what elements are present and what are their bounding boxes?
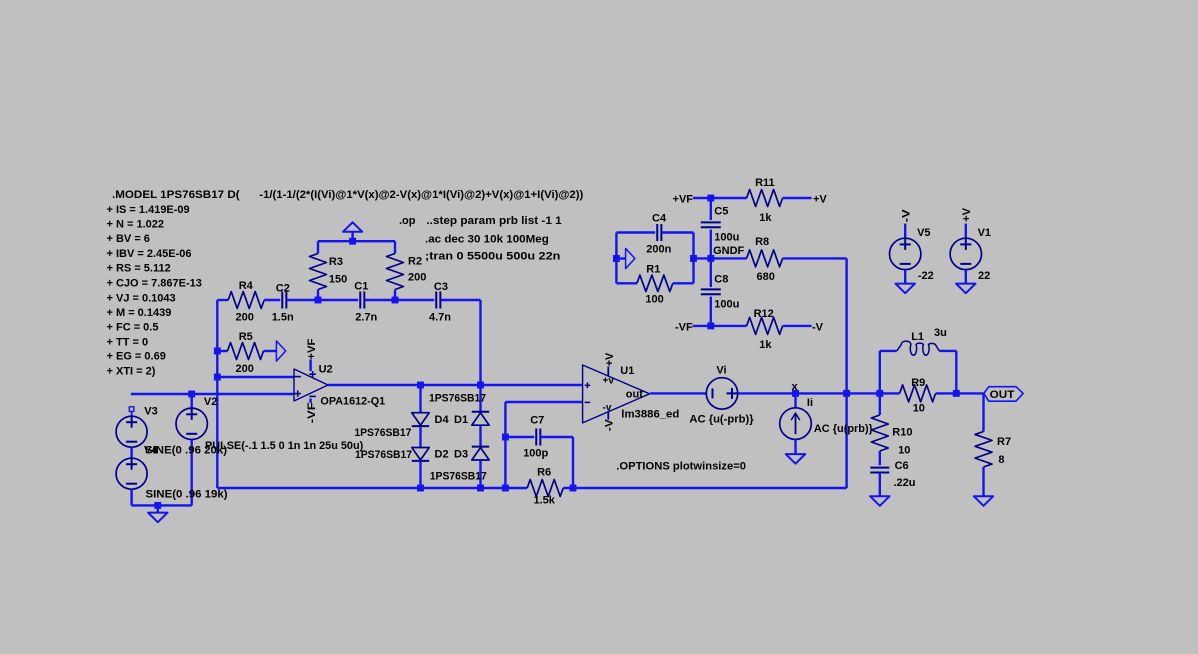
svg-text:R10: R10 xyxy=(892,427,912,439)
svg-text:+ TT = 0: + TT = 0 xyxy=(107,336,149,348)
svg-text:200: 200 xyxy=(236,363,254,375)
svg-text:.MODEL 1PS76SB17 D(: .MODEL 1PS76SB17 D( xyxy=(112,189,240,201)
svg-text:R1: R1 xyxy=(646,263,660,275)
svg-text:R3: R3 xyxy=(329,256,343,268)
svg-text:1k: 1k xyxy=(759,339,772,351)
svg-text:R7: R7 xyxy=(997,436,1011,448)
svg-text:-VF: -VF xyxy=(306,402,318,423)
svg-text:4.7n: 4.7n xyxy=(429,312,451,324)
svg-text:1PS76SB17: 1PS76SB17 xyxy=(355,449,412,461)
svg-text:x: x xyxy=(792,381,799,393)
svg-text:+ N = 1.022: + N = 1.022 xyxy=(107,219,165,231)
svg-text:+v: +v xyxy=(603,376,615,387)
svg-text:100p: 100p xyxy=(523,448,548,460)
svg-text:C6: C6 xyxy=(895,460,909,472)
svg-text:GNDF: GNDF xyxy=(713,245,744,257)
svg-text:-VF: -VF xyxy=(675,322,693,334)
svg-text:SINE(0 .96 19k): SINE(0 .96 19k) xyxy=(146,489,228,501)
svg-text:+ FC = 0.5: + FC = 0.5 xyxy=(107,322,159,334)
svg-text:D3: D3 xyxy=(454,449,468,461)
svg-text:PULSE(-.1 1.5 0 1n 1n 25u 50u): PULSE(-.1 1.5 0 1n 1n 25u 50u) xyxy=(205,440,364,452)
svg-text:+V: +V xyxy=(604,352,616,366)
svg-text:+ XTI = 2): + XTI = 2) xyxy=(107,366,156,378)
svg-text:V2: V2 xyxy=(204,396,217,408)
svg-text:2.7n: 2.7n xyxy=(355,312,377,324)
svg-text:1k: 1k xyxy=(759,212,772,224)
svg-text:200: 200 xyxy=(408,272,426,284)
svg-text:R9: R9 xyxy=(911,377,925,389)
svg-text:V1: V1 xyxy=(978,227,991,239)
svg-text:.22u: .22u xyxy=(894,477,916,489)
svg-text:1PS76SB17: 1PS76SB17 xyxy=(430,471,487,483)
svg-text:R4: R4 xyxy=(239,280,254,292)
svg-text:1.5n: 1.5n xyxy=(272,312,294,324)
svg-text:+V: +V xyxy=(961,207,973,222)
svg-text:U2: U2 xyxy=(319,364,333,376)
svg-text:D4: D4 xyxy=(435,414,450,426)
svg-text:D1: D1 xyxy=(454,414,468,426)
svg-text:680: 680 xyxy=(757,271,775,283)
svg-text:-22: -22 xyxy=(918,270,934,282)
svg-text:.op: .op xyxy=(399,215,416,227)
svg-text:L1: L1 xyxy=(911,331,924,343)
svg-text:+ VJ = 0.1043: + VJ = 0.1043 xyxy=(107,292,176,304)
svg-text:R8: R8 xyxy=(755,236,769,248)
svg-text:+ RS = 5.112: + RS = 5.112 xyxy=(107,263,171,275)
svg-text:Vi: Vi xyxy=(716,365,726,377)
svg-text:C4: C4 xyxy=(652,213,667,225)
svg-text:R2: R2 xyxy=(408,256,422,268)
svg-text:..step param prb list -1 1: ..step param prb list -1 1 xyxy=(426,215,561,227)
svg-text:V5: V5 xyxy=(917,227,930,239)
svg-text:R12: R12 xyxy=(754,308,774,320)
svg-text:D2: D2 xyxy=(435,449,449,461)
svg-text:+ IS = 1.419E-09: + IS = 1.419E-09 xyxy=(107,204,190,216)
svg-text:22: 22 xyxy=(978,270,990,282)
svg-text:OUT: OUT xyxy=(990,389,1015,401)
svg-text:1PS76SB17: 1PS76SB17 xyxy=(354,427,411,439)
svg-text:200: 200 xyxy=(236,312,254,324)
svg-text:+ EG = 0.69: + EG = 0.69 xyxy=(107,351,166,363)
svg-text:-1/(1-1/(2*(I(Vi)@1*V(x)@2-V(x: -1/(1-1/(2*(I(Vi)@1*V(x)@2-V(x)@1*I(Vi)@… xyxy=(259,189,583,201)
svg-text:V4: V4 xyxy=(144,445,158,457)
svg-text:V3: V3 xyxy=(144,406,157,418)
svg-text:10: 10 xyxy=(898,445,910,457)
svg-text:C1: C1 xyxy=(354,281,368,293)
svg-text:C2: C2 xyxy=(276,283,290,295)
svg-text:100: 100 xyxy=(645,294,663,306)
svg-text:100u: 100u xyxy=(714,299,739,311)
svg-text:+V: +V xyxy=(813,194,827,206)
svg-text:C5: C5 xyxy=(714,206,728,218)
svg-text:-v: -v xyxy=(603,403,612,414)
svg-text:3u: 3u xyxy=(934,327,947,339)
svg-text:Ii: Ii xyxy=(807,397,813,409)
svg-text:C8: C8 xyxy=(714,274,728,286)
svg-text:AC {u(-prb)}: AC {u(-prb)} xyxy=(689,413,754,425)
svg-text:;tran 0 5500u 500u 22n: ;tran 0 5500u 500u 22n xyxy=(425,251,561,263)
svg-text:out: out xyxy=(626,389,643,401)
svg-text:C3: C3 xyxy=(434,281,448,293)
svg-text:R5: R5 xyxy=(239,331,253,343)
svg-text:+VF: +VF xyxy=(306,338,318,359)
svg-text:-V: -V xyxy=(812,322,824,334)
svg-text:+ CJO = 7.867E-13: + CJO = 7.867E-13 xyxy=(107,278,202,290)
svg-text:200n: 200n xyxy=(646,243,671,255)
svg-text:.ac dec 30 10k 100Meg: .ac dec 30 10k 100Meg xyxy=(425,234,549,246)
svg-text:100u: 100u xyxy=(714,232,739,244)
svg-text:R6: R6 xyxy=(537,467,551,479)
svg-text:10: 10 xyxy=(913,402,925,414)
svg-text:AC {u(prb)}: AC {u(prb)} xyxy=(814,423,874,435)
svg-text:+ IBV = 2.45E-06: + IBV = 2.45E-06 xyxy=(107,248,192,260)
svg-text:lm3886_ed: lm3886_ed xyxy=(621,409,679,421)
svg-text:OPA1612-Q1: OPA1612-Q1 xyxy=(320,395,385,407)
svg-text:-V: -V xyxy=(900,209,912,223)
svg-text:1.5k: 1.5k xyxy=(534,495,556,507)
svg-text:-V: -V xyxy=(604,419,616,432)
svg-text:150: 150 xyxy=(329,274,347,286)
svg-text:1PS76SB17: 1PS76SB17 xyxy=(429,393,486,405)
svg-text:+VF: +VF xyxy=(673,194,694,206)
svg-text:.OPTIONS plotwinsize=0: .OPTIONS plotwinsize=0 xyxy=(616,460,746,472)
svg-text:8: 8 xyxy=(998,454,1004,466)
svg-text:U1: U1 xyxy=(620,365,634,377)
svg-text:R11: R11 xyxy=(755,177,775,189)
svg-text:+ BV = 6: + BV = 6 xyxy=(107,233,150,245)
svg-text:C7: C7 xyxy=(530,415,544,427)
svg-text:+ M = 0.1439: + M = 0.1439 xyxy=(107,307,172,319)
